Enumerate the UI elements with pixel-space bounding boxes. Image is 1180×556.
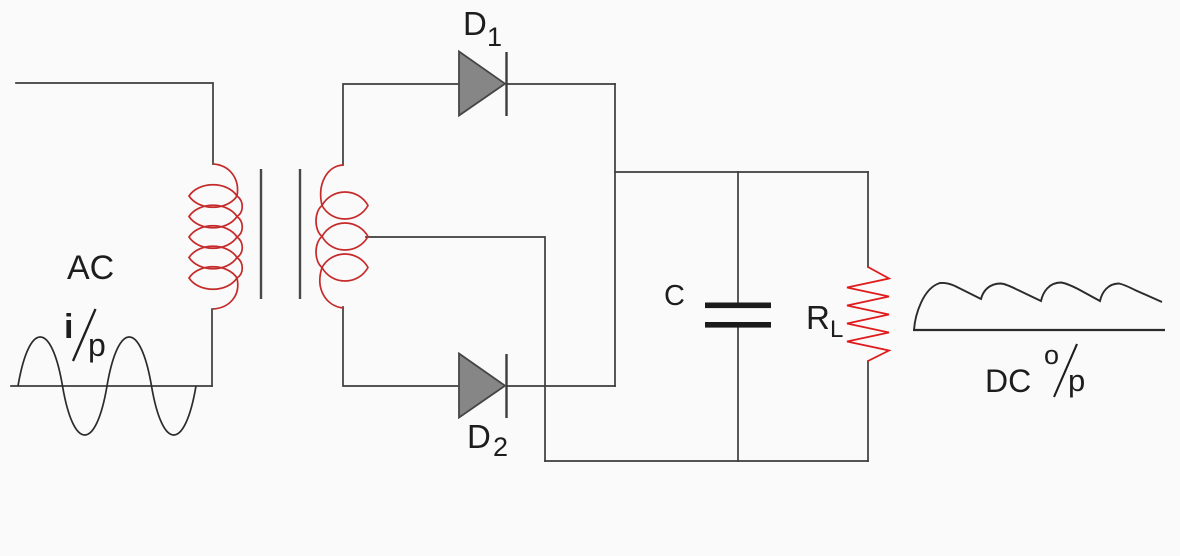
- wire: primary top lead: [16, 83, 213, 164]
- wire: secondary top lead to D1 anode: [343, 84, 459, 165]
- svg-text:1: 1: [487, 22, 502, 52]
- transformer core: [261, 169, 300, 299]
- wire: AC input baseline: [11, 385, 212, 387]
- transformer primary coil (red): [189, 164, 242, 309]
- svg-text:p: p: [1068, 363, 1085, 398]
- wire: primary bottom lead: [211, 309, 213, 386]
- wire: secondary bottom lead to D2 anode: [343, 307, 459, 386]
- wire: bottom rail: [545, 460, 868, 462]
- svg-text:AC: AC: [67, 249, 114, 287]
- svg-text:2: 2: [493, 432, 508, 462]
- svg-text:o: o: [1044, 340, 1059, 370]
- svg-text:DC: DC: [985, 363, 1031, 399]
- svg-text:R: R: [806, 299, 830, 336]
- svg-text:D: D: [463, 5, 487, 42]
- transformer secondary coil (red, center-tapped): [316, 165, 368, 308]
- capacitor C plates: [705, 303, 771, 328]
- svg-text:i: i: [64, 308, 73, 346]
- AC input sine wave: [18, 337, 196, 435]
- resistor RL (red zigzag): [847, 267, 889, 361]
- diode D2: [459, 354, 507, 419]
- DC output baseline: [913, 329, 1165, 331]
- diode D1: [459, 52, 507, 117]
- svg-text:L: L: [830, 316, 843, 343]
- wire: right vertical D1-D2 junction: [614, 84, 616, 386]
- DC output ripple waveform: [914, 283, 1162, 331]
- wire: D2 cathode to right junction: [507, 385, 615, 387]
- wire: capacitor bottom lead: [737, 328, 739, 461]
- wire: top rail: [615, 171, 868, 173]
- wire: resistor top lead: [867, 172, 869, 267]
- svg-text:C: C: [664, 280, 685, 312]
- svg-text:p: p: [88, 327, 106, 363]
- wire: D1 cathode to right junction: [507, 83, 615, 85]
- wire: center tap to bottom rail: [366, 237, 545, 461]
- wire: capacitor top lead: [737, 172, 739, 303]
- svg-text:D: D: [467, 418, 491, 455]
- wire: resistor bottom lead: [867, 361, 869, 461]
